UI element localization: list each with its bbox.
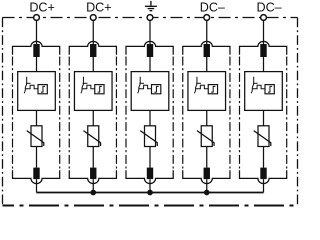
wire fuse F5b to PE bus bbox=[263, 179, 265, 192]
svg-text:DC–: DC– bbox=[200, 0, 225, 14]
varistor RV3 diagonal stroke bbox=[140, 131, 157, 146]
module M1 right dash-dot edge bbox=[59, 57, 61, 169]
wire fuse F2a to spark gap U2 bbox=[92, 57, 94, 72]
PE bus wire bbox=[37, 192, 264, 194]
varistor RV1 diagonal stroke bbox=[27, 131, 44, 146]
fuse/disconnector F2a bbox=[90, 44, 96, 57]
module M4 right dash-dot edge bbox=[229, 57, 231, 169]
fuse/disconnector F3b bbox=[147, 168, 153, 180]
spark gap U1 electrode stroke bbox=[24, 77, 27, 94]
spark gap U2 box bbox=[74, 72, 112, 111]
module M5 top edge with wire bump bbox=[240, 41, 287, 54]
terminal circle branch 3 bbox=[147, 15, 153, 21]
svg-text:DC–: DC– bbox=[256, 0, 281, 14]
spark gap U3 inner square bbox=[152, 85, 161, 94]
varistor RV5 diagonal stroke bbox=[254, 131, 271, 146]
spark gap U2 electrode tick bbox=[83, 82, 88, 84]
spark gap U5 electrode stroke bbox=[251, 77, 254, 94]
terminal circle branch 2 bbox=[90, 15, 96, 21]
module M2 bottom edge with wire bump bbox=[69, 170, 116, 183]
wire terminal 2 to fuse F2a bbox=[92, 20, 94, 44]
wire terminal 1 to fuse F1a bbox=[36, 20, 38, 44]
spark gap U3 electrode stroke bbox=[138, 77, 141, 94]
wire varistor RV2 to fuse F2b bbox=[92, 147, 94, 168]
wire spark gap U1 to varistor RV1 bbox=[36, 110, 38, 126]
spark gap U2 trigger step line bbox=[82, 85, 95, 89]
spark gap U3 trigger step line bbox=[139, 85, 152, 89]
module M4 top edge with wire bump bbox=[183, 41, 230, 54]
module M1 bottom edge with wire bump bbox=[13, 170, 60, 183]
module M1 left dash-dot edge bbox=[12, 57, 14, 169]
spark gap U3 box bbox=[131, 72, 169, 111]
spark gap U1 inner step mark bbox=[41, 86, 45, 92]
wire spark gap U5 to varistor RV5 bbox=[263, 110, 265, 126]
spark gap U4 inner step mark bbox=[211, 86, 215, 92]
spark gap U4 trigger step line bbox=[196, 85, 209, 89]
spark gap U1 trigger step line bbox=[25, 85, 38, 89]
wire spark gap U4 to varistor RV4 bbox=[206, 110, 208, 126]
varistor RV2 body bbox=[88, 126, 99, 147]
spark gap U1 electrode tick bbox=[26, 82, 31, 84]
module M4 bottom edge with wire bump bbox=[183, 170, 230, 183]
wire terminal 3 to fuse F3a bbox=[149, 20, 151, 44]
wire varistor RV5 to fuse F5b bbox=[263, 147, 265, 168]
wire fuse F1b to PE bus bbox=[36, 179, 38, 192]
wire spark gap U3 to varistor RV3 bbox=[149, 110, 151, 126]
spark gap U5 box bbox=[245, 72, 283, 111]
spark gap U1 inner square bbox=[38, 85, 47, 94]
module M2 top edge with wire bump bbox=[69, 41, 116, 54]
terminal circle branch 1 bbox=[34, 15, 40, 21]
varistor RV1 body bbox=[31, 126, 42, 147]
junction node branch 2 on PE bus bbox=[90, 190, 96, 196]
fuse/disconnector F1b bbox=[33, 168, 39, 180]
spark gap U4 electrode tick bbox=[196, 82, 201, 84]
module M3 bottom edge with wire bump bbox=[126, 170, 173, 183]
spark gap U5 trigger step line bbox=[252, 85, 265, 89]
varistor RV3 body bbox=[145, 126, 156, 147]
spark gap U5 inner square bbox=[265, 85, 274, 94]
module M2 right dash-dot edge bbox=[115, 57, 117, 169]
wire varistor RV4 to fuse F4b bbox=[206, 147, 208, 168]
svg-text:DC+: DC+ bbox=[86, 0, 112, 14]
wire fuse F4a to spark gap U4 bbox=[206, 57, 208, 72]
spark gap U5 inner step mark bbox=[268, 86, 272, 92]
module M3 top edge with wire bump bbox=[126, 41, 173, 54]
module M1 top edge with wire bump bbox=[13, 41, 60, 54]
spark gap U3 inner step mark bbox=[154, 86, 158, 92]
enclosure border left dash-dot bbox=[2, 18, 4, 206]
spark gap U3 electrode tick bbox=[139, 82, 144, 84]
junction node branch 3 on PE bus bbox=[147, 190, 153, 196]
wire terminal 4 to fuse F4a bbox=[206, 20, 208, 44]
module M3 left dash-dot edge bbox=[125, 57, 127, 169]
fuse/disconnector F5a bbox=[260, 44, 266, 57]
spark gap U5 electrode tick bbox=[253, 82, 258, 84]
spark gap U4 box bbox=[188, 72, 226, 111]
module M5 left dash-dot edge bbox=[239, 57, 241, 169]
varistor RV4 diagonal stroke bbox=[197, 131, 214, 146]
fuse/disconnector F4a bbox=[204, 44, 210, 57]
svg-text:DC+: DC+ bbox=[29, 0, 55, 14]
varistor RV4 body bbox=[201, 126, 212, 147]
wire varistor RV1 to fuse F1b bbox=[36, 147, 38, 168]
varistor RV5 body bbox=[258, 126, 269, 147]
spark gap U4 inner square bbox=[208, 85, 217, 94]
spark gap U2 electrode stroke bbox=[81, 77, 84, 94]
fuse/disconnector F5b bbox=[260, 168, 266, 180]
spark gap U2 inner step mark bbox=[98, 86, 102, 92]
module M5 right dash-dot edge bbox=[286, 57, 288, 169]
wire varistor RV3 to fuse F3b bbox=[149, 147, 151, 168]
spark gap U2 inner square bbox=[95, 85, 104, 94]
module M4 left dash-dot edge bbox=[182, 57, 184, 169]
fuse/disconnector F4b bbox=[204, 168, 210, 180]
terminal circle branch 5 bbox=[261, 15, 267, 21]
spark gap U4 electrode stroke bbox=[194, 77, 197, 94]
wire fuse F1a to spark gap U1 bbox=[36, 57, 38, 72]
wire fuse F5a to spark gap U5 bbox=[263, 57, 265, 72]
module M3 right dash-dot edge bbox=[172, 57, 174, 169]
terminal circle branch 4 bbox=[204, 15, 210, 21]
module M2 left dash-dot edge bbox=[68, 57, 70, 169]
fuse/disconnector F1a bbox=[33, 44, 39, 57]
fuse/disconnector F3a bbox=[147, 44, 153, 57]
spark gap U1 box bbox=[18, 72, 56, 111]
wire fuse F3b to PE bus bbox=[149, 179, 151, 192]
wire fuse F4b to PE bus bbox=[206, 179, 208, 192]
enclosure border right dash-dot bbox=[297, 18, 299, 206]
varistor RV2 diagonal stroke bbox=[83, 131, 100, 146]
module M5 bottom edge with wire bump bbox=[240, 170, 287, 183]
wire fuse F3a to spark gap U3 bbox=[149, 57, 151, 72]
wire spark gap U2 to varistor RV2 bbox=[92, 110, 94, 126]
fuse/disconnector F2b bbox=[90, 168, 96, 180]
enclosure border top dash-dot bbox=[3, 17, 298, 19]
ground symbol (PE) bbox=[145, 1, 157, 11]
enclosure border bottom dash-dot bbox=[3, 205, 298, 207]
wire fuse F2b to PE bus bbox=[92, 179, 94, 192]
wire terminal 5 to fuse F5a bbox=[263, 20, 265, 44]
junction node branch 4 on PE bus bbox=[204, 190, 210, 196]
